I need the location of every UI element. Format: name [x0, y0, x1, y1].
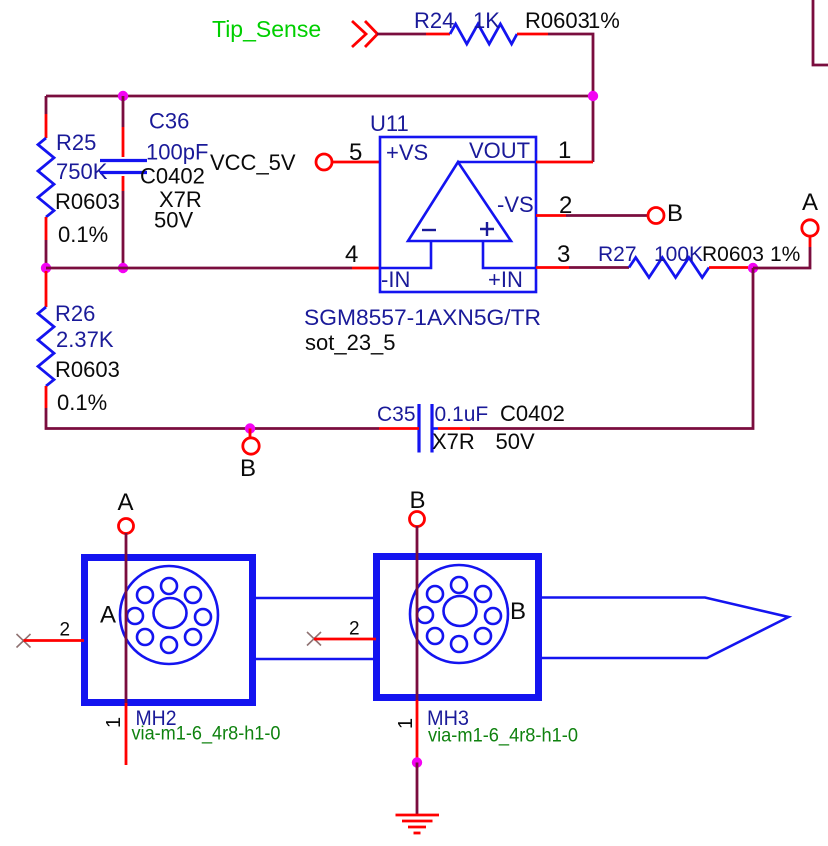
svg-text:R0603: R0603 [525, 8, 590, 33]
svg-text:1: 1 [558, 137, 571, 164]
junction at pin1 column [588, 91, 598, 101]
svg-text:C36: C36 [149, 109, 189, 134]
ground [396, 815, 440, 833]
svg-text:1K: 1K [473, 8, 500, 33]
mounting hole MH3 body [377, 557, 539, 698]
svg-text:via-m1-6_4r8-h1-0: via-m1-6_4r8-h1-0 [428, 726, 578, 747]
junction B tap [245, 423, 255, 433]
svg-text:100pF: 100pF [146, 140, 208, 165]
capacitor C35 [379, 404, 470, 453]
svg-text:B: B [240, 455, 256, 482]
svg-text:R0603: R0603 [55, 357, 120, 382]
svg-text:5: 5 [349, 139, 362, 166]
svg-text:-VS: -VS [497, 192, 534, 217]
pin 4 stub [352, 267, 380, 270]
pin circle B [648, 208, 664, 224]
svg-text:X7R: X7R [432, 429, 475, 454]
wire Tip_Sense to R24 [377, 33, 426, 36]
svg-text:2: 2 [60, 620, 71, 641]
svg-text:2: 2 [559, 192, 572, 219]
MH3 pin 1 stub [416, 700, 419, 763]
op-amp U11 [380, 137, 536, 292]
junction R27 right [748, 263, 758, 273]
svg-text:2.37K: 2.37K [56, 327, 114, 352]
mounting hole MH2 body [85, 558, 253, 703]
svg-text:R27: R27 [598, 243, 637, 266]
svg-text:100K: 100K [654, 243, 703, 266]
op-amp minus sign [422, 229, 436, 231]
svg-text:R26: R26 [55, 301, 95, 326]
svg-text:1%: 1% [588, 8, 620, 33]
svg-text:SGM8557-1AXN5G/TR: SGM8557-1AXN5G/TR [304, 305, 541, 330]
junction C36 bottom [118, 263, 128, 273]
capacitor C36 [100, 96, 147, 268]
B pin stub [249, 429, 252, 439]
wire pin3 to R27 [569, 266, 629, 269]
wire A pin into MH2 [125, 533, 128, 703]
svg-text:C0402: C0402 [140, 164, 205, 189]
op-amp plus sign [480, 222, 494, 236]
wire vertical to pin 1 [592, 96, 595, 162]
svg-text:A: A [100, 602, 116, 629]
svg-text:C35: C35 [377, 403, 416, 426]
svg-text:R25: R25 [56, 130, 96, 155]
wire B pin into MH3 [416, 526, 419, 700]
wire fragment top right [813, 0, 828, 65]
svg-text:50V: 50V [496, 429, 535, 454]
svg-text:+IN: +IN [488, 267, 523, 292]
svg-text:4: 4 [345, 241, 358, 268]
pin circle VCC_5V [316, 154, 332, 170]
wire pin2 to B pin [566, 214, 648, 217]
pin 1 stub [536, 161, 593, 164]
resistor R27 [629, 258, 748, 278]
svg-text:sot_23_5: sot_23_5 [305, 330, 396, 355]
off-page connector Tip_Sense [352, 21, 378, 47]
pin circle A (MH2) [119, 519, 134, 534]
wire left rail lower [45, 240, 48, 268]
svg-text:+VS: +VS [386, 140, 428, 165]
svg-text:1%: 1% [770, 243, 800, 266]
svg-text:C0402: C0402 [500, 401, 565, 426]
svg-text:B: B [510, 598, 526, 625]
MH2 pin 2 stub [24, 639, 85, 642]
wire to ground [416, 763, 419, 815]
MH3 pin 2 no-connect X [307, 632, 321, 646]
svg-text:A: A [118, 489, 134, 516]
svg-text:0.1%: 0.1% [58, 222, 108, 247]
pin 3 stub [536, 266, 569, 269]
MH2 pin 1 stub [125, 703, 128, 765]
svg-text:0.1%: 0.1% [57, 390, 107, 415]
svg-text:B: B [410, 487, 426, 514]
svg-text:0.1uF: 0.1uF [435, 403, 489, 426]
svg-text:via-m1-6_4r8-h1-0: via-m1-6_4r8-h1-0 [132, 724, 281, 745]
svg-text:-IN: -IN [381, 267, 410, 292]
svg-text:1: 1 [103, 717, 125, 728]
svg-text:VCC_5V: VCC_5V [210, 150, 296, 175]
pin circle B bottom [243, 438, 259, 454]
svg-text:2: 2 [349, 619, 360, 640]
wire left rail upper [45, 96, 48, 114]
junction top of C36 [118, 91, 128, 101]
junction MH3 ground [412, 757, 422, 767]
svg-text:A: A [802, 189, 818, 216]
wire bottom rail left [46, 408, 379, 429]
svg-text:U11: U11 [370, 111, 409, 136]
MH3 pin 2 stub [314, 638, 376, 641]
wire -IN rail [46, 267, 352, 270]
svg-text:R24: R24 [414, 8, 454, 33]
wire junction down to bottom rail [470, 268, 753, 429]
svg-text:Tip_Sense: Tip_Sense [212, 16, 321, 42]
svg-text:R0603: R0603 [55, 189, 120, 214]
MH3 hole pattern [410, 565, 508, 663]
svg-text:750K: 750K [56, 159, 108, 184]
pin 5 stub [332, 161, 380, 164]
pin circle B (MH3) [410, 512, 425, 527]
junction R25 bottom [41, 263, 51, 273]
svg-text:R0603: R0603 [702, 243, 764, 266]
MH2 hole pattern [120, 566, 218, 664]
svg-text:B: B [667, 200, 683, 227]
resistor R25 [38, 114, 54, 240]
svg-text:50V: 50V [154, 208, 193, 233]
wire R24 to node at pin1 column [548, 34, 593, 96]
pin circle A [802, 220, 818, 236]
probe tip shape [542, 598, 789, 659]
svg-text:VOUT: VOUT [469, 138, 530, 163]
wire junction to A pin [753, 247, 810, 268]
resistor R26 [38, 271, 54, 408]
MH2 pin 2 no-connect X [17, 634, 31, 648]
pin 2 stub [536, 214, 566, 217]
svg-text:3: 3 [557, 241, 570, 268]
resistor R24 [426, 24, 548, 44]
A pin stub [809, 236, 812, 247]
wire top horizontal rail [46, 95, 593, 98]
probe shaft between MH2 and MH3 [252, 598, 373, 659]
svg-text:1: 1 [395, 718, 417, 729]
